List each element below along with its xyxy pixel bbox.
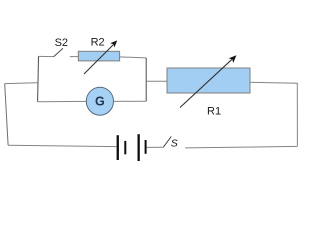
svg-text:R2: R2 (91, 37, 105, 49)
battery cell 1 positive plate (117, 135, 119, 160)
resistor R1 wiper arrow (180, 55, 236, 107)
wire R1 to right corner (250, 82, 297, 146)
wire R2 to right junction (120, 57, 147, 58)
wire bottom right segment (185, 146, 297, 148)
switch S blade (163, 136, 171, 147)
switch S2 blade (54, 48, 63, 57)
resistor R2 body (78, 51, 119, 61)
resistor R2 wiper arrow (84, 40, 117, 74)
svg-text:G: G (95, 95, 105, 109)
svg-text:R1: R1 (207, 106, 221, 118)
node left junction vertical (37, 56, 40, 101)
battery cell 2 negative plate (145, 140, 147, 154)
svg-text:S: S (171, 138, 178, 150)
wire galvanometer to right junction (114, 100, 147, 102)
wire S2 to R2 (70, 56, 79, 58)
battery cell 1 negative plate (124, 141, 126, 154)
wire left outer slant (5, 84, 8, 146)
wire left connector (5, 82, 38, 85)
wire junction to galvanometer (38, 100, 87, 102)
wire right junction to R1 (146, 80, 167, 82)
node right junction vertical (145, 58, 147, 101)
wire top branch left segment (39, 55, 54, 57)
battery cell 2 positive plate (138, 134, 140, 161)
resistor R1 body (167, 68, 250, 93)
svg-text:S2: S2 (55, 37, 68, 49)
wire battery to switch S (147, 146, 163, 148)
wire bottom left segment (8, 145, 117, 146)
galvanometer G body (86, 87, 113, 115)
